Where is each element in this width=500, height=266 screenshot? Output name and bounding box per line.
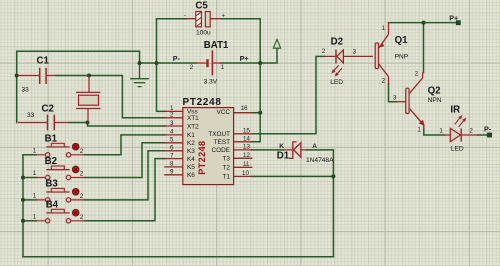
wire: upper-left bus C1/C2 net [17, 51, 140, 122]
ground [131, 63, 148, 87]
svg-text:1: 1 [33, 170, 37, 177]
IR LED cathode bar [460, 128, 462, 141]
svg-text:B3: B3 [45, 178, 58, 189]
svg-text:2: 2 [170, 112, 174, 119]
svg-text:10: 10 [242, 170, 249, 177]
svg-text:VCC: VCC [217, 109, 231, 116]
D1 cathode bar with zener wings [289, 142, 297, 159]
terminal P+ [456, 21, 460, 25]
svg-text:K: K [279, 143, 284, 150]
svg-text:K6: K6 [187, 172, 195, 179]
svg-text:P-: P- [173, 54, 181, 63]
wire: C1 right to crystal junction to XT1 [56, 76, 165, 118]
wire: B4 right riser to K4 pin7 [85, 159, 165, 221]
terminal P- [487, 133, 491, 137]
wire: Q2 collector riser [423, 23, 425, 73]
svg-text:P+: P+ [449, 13, 458, 22]
D2 emission arrows [330, 64, 343, 78]
crystal body [79, 95, 99, 105]
svg-text:Q1: Q1 [395, 35, 409, 46]
svg-text:3: 3 [353, 49, 357, 56]
svg-text:IR: IR [450, 104, 460, 115]
svg-text:PT2248: PT2248 [197, 141, 207, 175]
node: battery plus junction [258, 61, 262, 65]
D2 cathode bar [335, 50, 337, 64]
svg-text:K1: K1 [187, 132, 195, 139]
crystal stems [88, 76, 89, 123]
svg-text:1: 1 [33, 193, 37, 200]
svg-text:33: 33 [27, 112, 35, 119]
wire: battery P- net horizontal [140, 62, 197, 64]
Q2 collector [410, 73, 423, 94]
svg-text:3.3V: 3.3V [204, 79, 218, 86]
wire: B3 right riser to K3 pin6 [85, 151, 165, 200]
chip pin numbers right [241, 105, 251, 177]
wire: bottom rail [23, 256, 333, 258]
svg-text:XT2: XT2 [187, 123, 199, 130]
D1 leads [284, 149, 307, 151]
Q1 base bar [375, 43, 378, 69]
svg-text:2: 2 [190, 64, 194, 71]
D2 leads [324, 55, 373, 57]
capacitor C1 leads [18, 75, 57, 77]
svg-text:1: 1 [33, 147, 37, 154]
svg-text:C5: C5 [195, 0, 208, 11]
svg-text:C1: C1 [37, 56, 50, 67]
svg-text:8: 8 [170, 161, 174, 168]
node: bus B2 junction [21, 176, 25, 180]
svg-text:B1: B1 [45, 133, 58, 144]
svg-text:A: A [312, 143, 317, 150]
Q2 base bar [406, 88, 409, 113]
svg-text:LED: LED [451, 146, 464, 153]
svg-text:3: 3 [393, 94, 397, 101]
chip PT2248 pin stubs left [165, 111, 183, 174]
svg-text:T2: T2 [223, 165, 231, 172]
svg-text:2: 2 [80, 193, 84, 200]
battery short thick plate [206, 59, 208, 67]
capacitor C2 plates [48, 115, 55, 130]
wire: B4 left [23, 220, 36, 222]
svg-text:4: 4 [170, 129, 174, 136]
svg-text:3: 3 [170, 120, 174, 127]
svg-text:12: 12 [243, 152, 250, 159]
wire: D1 anode riser down to bottom rail [306, 150, 333, 257]
svg-text:T1: T1 [223, 174, 231, 181]
svg-text:13: 13 [243, 144, 250, 151]
svg-text:TEST: TEST [214, 139, 230, 146]
svg-text:100u: 100u [196, 30, 211, 37]
button B4 [36, 209, 84, 223]
svg-text:5: 5 [170, 137, 174, 144]
D1 triangle [294, 143, 301, 158]
capacitor C5 plus plate [205, 12, 210, 27]
chip pin numbers left [170, 105, 174, 175]
chip pin names right [208, 109, 230, 181]
svg-text:-: - [184, 13, 186, 19]
Q2 emitter [410, 109, 424, 129]
capacitor C5 minus plate hatched [196, 12, 202, 27]
svg-text:LED: LED [330, 79, 343, 86]
wire: C2 right to crystal bottom junction to XT2 pin3 [69, 123, 165, 127]
svg-text:6: 6 [170, 145, 174, 152]
capacitor C5 leads [186, 18, 221, 20]
svg-text:Q2: Q2 [428, 85, 441, 96]
svg-text:2: 2 [415, 71, 419, 78]
svg-text:11: 11 [243, 161, 250, 168]
battery long thin plate [211, 50, 213, 75]
svg-text:2: 2 [80, 214, 84, 221]
svg-text:PT2248: PT2248 [183, 97, 222, 108]
svg-text:CODE: CODE [212, 147, 230, 154]
svg-text:D2: D2 [331, 36, 343, 47]
Q2 base lead [396, 101, 406, 103]
wire: TXOUT pin15 to D2 riser [252, 56, 324, 133]
wire: CODE pin13 to D1 cathode [252, 149, 284, 151]
svg-text:TXOUT: TXOUT [208, 131, 230, 138]
wire: battery plus to power arrow stem [221, 48, 277, 63]
capacitor C1 plates [40, 68, 46, 84]
D2 triangle [337, 50, 344, 63]
button B1 [36, 143, 84, 157]
wire: IR LED to P- terminal [478, 134, 488, 136]
chip U1 body [183, 108, 234, 185]
node: bus B3 junction [21, 198, 25, 202]
svg-text:B4: B4 [46, 200, 59, 211]
svg-text:1: 1 [382, 25, 386, 32]
svg-text:16: 16 [241, 105, 248, 112]
Q1 emitter arrowhead (PNP, pointing into base) [379, 43, 384, 48]
node: P+ rail Q2 collector junction [422, 21, 426, 25]
node: C1 left junction [15, 74, 19, 78]
wire: pin16 VCC stub to riser [252, 112, 261, 114]
wire: P+ top rail [389, 22, 457, 24]
wire: C5 right top to P+ riser [221, 19, 260, 113]
chip pin names left [187, 108, 199, 179]
node: crystal bottom junction [86, 121, 90, 125]
wire: B3 left [23, 199, 36, 201]
Q1 collector [379, 64, 389, 84]
svg-text:14: 14 [243, 136, 250, 143]
svg-text:NPN: NPN [428, 97, 442, 104]
svg-text:K4: K4 [187, 156, 195, 163]
svg-text:+: + [222, 13, 226, 19]
svg-text:2: 2 [80, 171, 84, 178]
svg-text:2: 2 [322, 48, 326, 55]
IR LED leads [444, 134, 478, 136]
wire: Q1 collector to Q2 base [389, 84, 397, 102]
Q2 emitter arrowhead (NPN, pointing out) [420, 120, 425, 125]
svg-text:K5: K5 [187, 164, 195, 171]
wire: Q2 emitter to IR LED [424, 129, 444, 136]
svg-text:BAT1: BAT1 [204, 40, 229, 51]
wire: B1 left [23, 154, 36, 156]
IR LED emission arrows [453, 114, 467, 128]
svg-text:9: 9 [170, 169, 174, 176]
battery leads [196, 62, 221, 64]
svg-text:1: 1 [33, 213, 37, 220]
IR LED triangle [450, 128, 460, 142]
svg-text:1: 1 [417, 127, 421, 134]
svg-text:PNP: PNP [395, 53, 409, 60]
svg-text:2: 2 [80, 148, 84, 155]
svg-text:33: 33 [22, 86, 30, 93]
wire: T1 pin10 to D1 riser [252, 175, 334, 177]
wire: B2 left [23, 177, 36, 179]
wire: C5 left riser down to battery and pin1 Vss [157, 19, 166, 112]
chip PT2248 pin stubs right [234, 113, 252, 177]
wire: C5 left top [157, 18, 187, 20]
svg-text:K3: K3 [187, 148, 195, 155]
node: VCC pin16 junction [258, 111, 262, 115]
svg-text:P-: P- [484, 125, 492, 134]
svg-text:2: 2 [382, 78, 386, 85]
svg-text:C2: C2 [42, 103, 54, 114]
svg-text:1: 1 [439, 128, 443, 135]
node: battery minus junction [155, 61, 159, 65]
node: T1 / D1 anode junction [331, 174, 335, 178]
svg-text:XT1: XT1 [187, 115, 199, 122]
svg-text:P+: P+ [240, 54, 249, 63]
node: bus B4 junction [21, 219, 25, 223]
svg-text:2: 2 [469, 128, 473, 135]
svg-text:7: 7 [170, 152, 174, 159]
node: crystal top junction [87, 74, 91, 78]
Q1 emitter [379, 23, 389, 48]
wire: B1 right riser to K1 pin4 [85, 135, 165, 155]
svg-text:B2: B2 [45, 156, 57, 167]
wire: B2 right riser to K2 pin5 [85, 143, 165, 178]
svg-text:1: 1 [221, 64, 225, 71]
wire: button common bus [22, 155, 24, 257]
capacitor C2 leads [18, 122, 69, 124]
svg-text:T3: T3 [223, 156, 231, 163]
svg-text:K2: K2 [187, 140, 195, 147]
wire: P+ riser to pin14 TEST [252, 113, 261, 142]
node: ground junction [138, 61, 142, 65]
power arrow terminal [273, 39, 280, 48]
svg-text:D1: D1 [277, 150, 290, 161]
svg-text:1N4748A: 1N4748A [306, 157, 334, 164]
button B2 [36, 166, 84, 180]
crystal plates [76, 92, 101, 108]
button B3 [36, 188, 84, 202]
svg-text:15: 15 [243, 128, 250, 135]
